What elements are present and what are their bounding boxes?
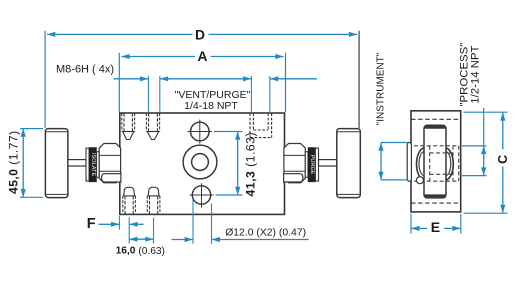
M8 hole dimension arrows & extension lines xyxy=(114,76,252,112)
dimension F (edge to first hole) xyxy=(87,216,144,244)
svg-text:D: D xyxy=(195,28,205,43)
M8 tapped hole bottom-left #2 xyxy=(147,187,160,214)
purge vent nipple xyxy=(284,174,303,182)
svg-text:1/4-18 NPT: 1/4-18 NPT xyxy=(184,100,238,112)
label VENT/PURGE 1/4-18 NPT xyxy=(175,89,251,112)
manifold body (front view) xyxy=(120,113,285,214)
isolate name plate xyxy=(89,148,96,182)
svg-text:Ø12.0 (X2) (0.47): Ø12.0 (X2) (0.47) xyxy=(225,227,306,238)
M8 tapped hole bottom-left #1 xyxy=(123,187,136,214)
label PROCESS 1/2-14 NPT (rotated) xyxy=(459,43,482,107)
purge name plate xyxy=(308,148,315,182)
svg-text:1/2-14 NPT: 1/2-14 NPT xyxy=(469,45,481,103)
dimension A (body width) xyxy=(119,49,285,112)
svg-text:41,3 (1.63): 41,3 (1.63) xyxy=(243,132,257,196)
isolate hex bonnet xyxy=(99,144,120,183)
isolate vent nipple xyxy=(102,174,121,182)
instrument connection dimension xyxy=(378,143,408,180)
process connection dimension xyxy=(462,108,487,176)
side view body outline xyxy=(411,111,461,212)
svg-text:PURGE: PURGE xyxy=(309,155,315,175)
isolate packing ring xyxy=(97,152,100,178)
dimension Ø12.0 (X2) (0.47) xyxy=(172,199,309,244)
upper gauge port circle w/ centermark xyxy=(188,120,213,144)
purge bonnet seen end-on (right arcs) xyxy=(446,148,453,180)
purge bonnet washer ring xyxy=(315,148,318,181)
svg-text:ISOLATE: ISOLATE xyxy=(90,153,96,176)
svg-text:C: C xyxy=(496,155,510,164)
side view hidden line (bottom chamfer) xyxy=(411,202,461,204)
purge packing ring xyxy=(305,152,308,178)
dimension D (overall width) xyxy=(45,28,359,128)
M8 tapped hole top-left #2 xyxy=(146,113,159,139)
vent nipple end-on (small circle) xyxy=(416,177,423,184)
svg-text:"INSTRUMENT": "INSTRUMENT" xyxy=(375,52,386,125)
svg-text:45,0 (1.77): 45,0 (1.77) xyxy=(7,130,21,194)
purge valve stem xyxy=(319,160,337,166)
handle seen face-on (centre rounded bar) xyxy=(424,125,446,198)
hidden NPT port rect (side view) xyxy=(414,146,459,181)
dimension 16,0 (0.63) hole spacing xyxy=(116,218,165,257)
main centre bore (two concentric circles) xyxy=(183,145,217,179)
svg-text:E: E xyxy=(431,219,440,235)
handle seen edge-on (thin bar outside left) xyxy=(407,143,411,182)
isolate valve handle (left T-bar) xyxy=(45,129,68,198)
1/4-18 NPT vent/purge port (top, hidden) xyxy=(250,113,272,137)
isolate valve stem xyxy=(68,160,86,166)
svg-text:F: F xyxy=(87,216,96,232)
dimension 41,3 (1.63) port spacing xyxy=(214,132,257,197)
svg-text:A: A xyxy=(198,49,208,64)
isolate bonnet washer ring xyxy=(86,148,89,181)
svg-text:16,0 (0.63): 16,0 (0.63) xyxy=(116,245,165,256)
dimension 45,0 (1.77) handle height xyxy=(7,129,44,198)
lower gauge port circle w/ centermark xyxy=(190,183,214,207)
M8 tapped hole top-left #1 xyxy=(122,113,135,139)
NPT port dimension arrows & extension lines xyxy=(243,76,317,112)
isolate bonnet seen end-on (left arcs) xyxy=(417,148,424,180)
purge valve hex bonnet xyxy=(284,144,305,183)
dimension E (side width) xyxy=(411,214,461,235)
svg-text:M8-6H ( 4x): M8-6H ( 4x) xyxy=(56,64,114,76)
side view hidden line (top chamfer) xyxy=(411,118,461,120)
dimension C (side height) xyxy=(464,112,510,213)
purge valve handle (right T-bar) xyxy=(337,129,361,198)
